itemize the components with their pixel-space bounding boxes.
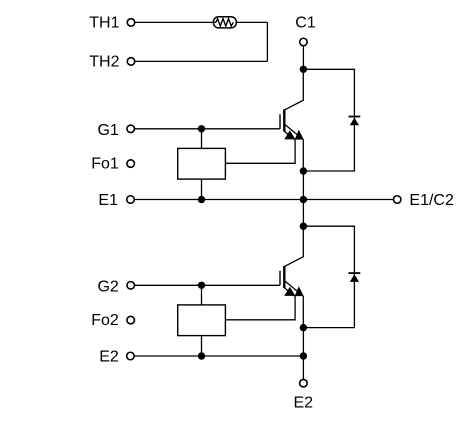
- wire TH1 to thermistor: [135, 21, 216, 23]
- diode D2: [349, 273, 361, 282]
- terminal E1/C2: [393, 196, 401, 204]
- junction E2 bus / rail: [300, 352, 307, 359]
- terminal E2 bottom: [300, 379, 308, 387]
- junction G2 / box: [198, 282, 205, 289]
- thermistor RTH: [213, 17, 236, 28]
- wire thermistor right segment: [236, 21, 267, 23]
- svg-text:E2: E2: [99, 348, 119, 365]
- wire TH2 return: [135, 60, 268, 62]
- terminal Fo1: [127, 160, 135, 168]
- junction E1 bus / box U1: [198, 196, 205, 203]
- wire G1: [135, 128, 281, 130]
- wire E1 bus to collector node 2: [302, 200, 304, 227]
- box U1 gate control block: [178, 148, 226, 179]
- svg-text:Fo2: Fo2: [91, 312, 119, 329]
- box U2 gate control block: [178, 305, 226, 336]
- terminal Fo2: [127, 316, 135, 324]
- svg-text:Fo1: Fo1: [91, 156, 119, 173]
- wire emitter node 1 to E1 bus: [302, 171, 304, 200]
- transistor Q2 IGBT: [280, 226, 304, 327]
- junction collector node 2: [300, 223, 307, 230]
- terminal G1: [127, 125, 135, 133]
- wire G2: [135, 284, 281, 286]
- wire C1 to collector node: [302, 46, 304, 70]
- wire TH loop vertical: [266, 22, 268, 61]
- svg-text:E2: E2: [294, 394, 314, 411]
- terminal G2: [127, 282, 135, 290]
- wire E2 bus: [134, 355, 303, 357]
- junction E1 bus / rail: [300, 196, 307, 203]
- svg-text:G1: G1: [97, 122, 118, 139]
- terminal E1: [127, 196, 135, 204]
- terminal C1: [300, 38, 308, 46]
- wire diode D1 branch: [303, 69, 354, 171]
- terminal E2 left: [127, 352, 135, 360]
- junction E2 bus / box U2: [198, 352, 205, 359]
- transistor Q1 IGBT: [280, 69, 304, 171]
- junction emitter node 1: [300, 167, 307, 174]
- svg-text:E1/C2: E1/C2: [409, 192, 454, 209]
- wire G1 junction to box U1: [201, 129, 203, 149]
- svg-text:TH2: TH2: [89, 54, 119, 71]
- svg-text:C1: C1: [295, 15, 316, 32]
- wire E1 bus: [134, 199, 393, 201]
- wire box U1 to E1 bus: [201, 179, 203, 199]
- wire diode D2 branch: [303, 226, 354, 327]
- svg-text:E1: E1: [98, 192, 118, 209]
- terminal TH1: [127, 19, 135, 27]
- wire box U2 to E2 bus: [201, 336, 203, 356]
- junction collector node 1: [300, 66, 307, 73]
- wire E2 bus to terminal E2: [302, 356, 304, 380]
- svg-text:G2: G2: [97, 279, 118, 296]
- terminal TH2: [127, 58, 135, 66]
- svg-text:TH1: TH1: [89, 15, 119, 32]
- wire box U1 to kelvin emitter Q1: [225, 140, 295, 164]
- wire box U2 to kelvin emitter Q2: [225, 296, 295, 320]
- diode D1: [349, 117, 361, 126]
- wire G2 junction to box U2: [201, 285, 203, 305]
- wire emitter node 2 to E2 bus: [302, 328, 304, 356]
- junction emitter node 2: [300, 324, 307, 331]
- junction G1 / box: [198, 125, 205, 132]
